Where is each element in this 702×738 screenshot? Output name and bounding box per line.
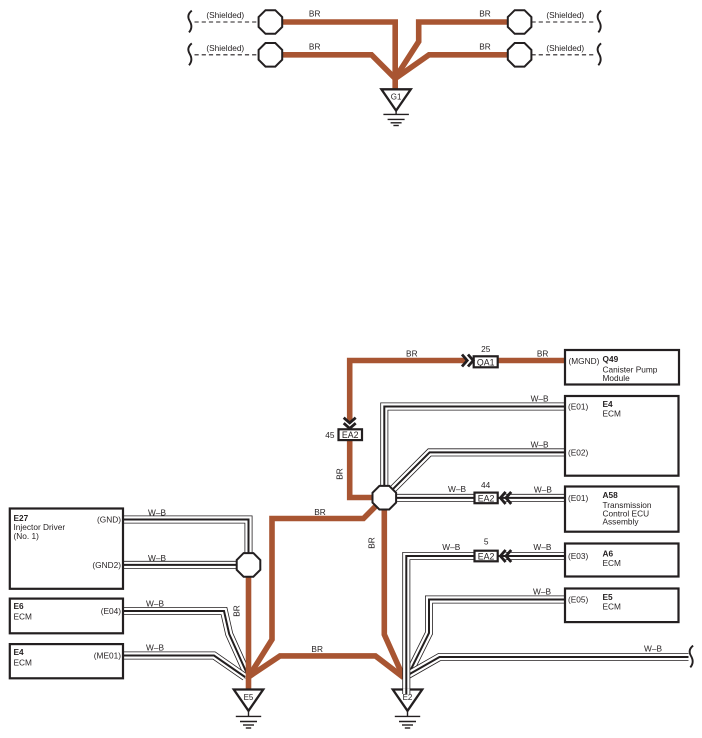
- label 5: [484, 537, 489, 547]
- svg-text:Assembly: Assembly: [603, 517, 640, 527]
- svg-text:ECM: ECM: [603, 409, 622, 419]
- svg-text:(E02): (E02): [568, 447, 589, 457]
- label BR vertical EA2-45: [335, 468, 345, 480]
- label W-B EA2 5 left: [442, 542, 460, 552]
- wire BR E5 to E2 link: [249, 656, 404, 678]
- svg-text:QA1: QA1: [477, 357, 495, 367]
- svg-text:W–B: W–B: [146, 599, 164, 609]
- label BR at Q49 wire right: [537, 349, 549, 359]
- label W-B E27 GND: [148, 507, 166, 517]
- ground E2: [393, 690, 422, 729]
- svg-text:BR: BR: [232, 605, 242, 617]
- chevron into EA2 pin 45: [344, 418, 356, 429]
- label W-B E6 E04: [146, 599, 164, 609]
- shield node row2 right: [508, 43, 532, 67]
- label W-B EA2 5 right: [533, 542, 551, 552]
- svg-text:W–B: W–B: [534, 485, 552, 495]
- shield node row1 right: [508, 10, 532, 34]
- svg-text:W–B: W–B: [531, 439, 549, 449]
- svg-text:BR: BR: [537, 349, 549, 359]
- svg-text:(No. 1): (No. 1): [14, 531, 40, 541]
- connector EA2 pin 44: [475, 493, 498, 504]
- svg-text:G1: G1: [391, 93, 402, 102]
- wire BR shield row2 right to G1: [396, 55, 508, 78]
- wire W-B junction B to EA2 pin 44: [396, 494, 474, 502]
- connector EA2 pin 5: [475, 551, 498, 562]
- connector QA1 pin 25: [474, 356, 498, 367]
- component A6 ECM: [565, 544, 679, 577]
- wire BR Q49 box to Q49 module: [498, 358, 565, 364]
- wire shielded lead row2 right: [532, 54, 597, 56]
- wire W-B junction B to E4 (E01): [384, 407, 565, 488]
- svg-text:BR: BR: [309, 41, 321, 51]
- label (Shielded) row1 right: [546, 10, 584, 20]
- svg-text:EA2: EA2: [342, 430, 359, 440]
- svg-text:EA2: EA2: [478, 552, 495, 562]
- wire W-B EA2 pin 44 to A58 (E01): [498, 494, 566, 502]
- svg-text:ECM: ECM: [603, 601, 622, 611]
- wire W-B E2 to off-page: [407, 657, 688, 676]
- wire W-B EA2 pin 5 to A6 (E03): [498, 552, 566, 560]
- svg-text:(GND): (GND): [97, 515, 121, 525]
- svg-text:(Shielded): (Shielded): [546, 43, 584, 53]
- component E27 Injector Driver (No. 1): [10, 509, 123, 589]
- break mark row1 right: [598, 11, 601, 33]
- wire BR shield row1 right to G1: [397, 22, 508, 76]
- svg-text:E5: E5: [244, 693, 254, 702]
- wire W-B E27 (GND2) to junction A: [123, 561, 238, 569]
- wire shielded lead row2 left: [195, 54, 259, 56]
- svg-text:44: 44: [481, 480, 491, 490]
- component E5 ECM: [565, 589, 679, 623]
- wire W-B E5 ECM (E05) to E2: [409, 600, 565, 675]
- svg-text:Q49: Q49: [603, 354, 619, 364]
- component E4 ECM (right): [565, 396, 679, 476]
- svg-text:25: 25: [481, 344, 491, 354]
- wire BR junction B to E5: [249, 506, 377, 677]
- shield node row2 left: [259, 43, 283, 67]
- label W-B to E5 ECM: [533, 587, 551, 597]
- label BR bottom link: [311, 644, 323, 654]
- wire BR to QA1 chevron: [350, 361, 467, 422]
- wire shielded lead row1 right: [532, 21, 597, 23]
- connector EA2 pin 45: [339, 429, 363, 440]
- label 45: [325, 430, 335, 440]
- component E6 ECM: [10, 599, 123, 634]
- svg-text:BR: BR: [335, 468, 345, 480]
- label W-B to E4 E02: [531, 439, 549, 449]
- break mark row2 right: [598, 43, 601, 65]
- svg-text:ECM: ECM: [14, 612, 33, 622]
- svg-text:BR: BR: [311, 644, 323, 654]
- svg-text:A58: A58: [603, 490, 619, 500]
- label (Shielded) row2 right: [546, 43, 584, 53]
- svg-text:BR: BR: [309, 9, 321, 19]
- svg-text:W–B: W–B: [531, 394, 549, 404]
- wire BR EA2-45 to junction B: [350, 440, 373, 497]
- svg-text:W–B: W–B: [442, 542, 460, 552]
- label BR vertical junction A to E5: [232, 605, 242, 617]
- svg-text:(E04): (E04): [101, 606, 122, 616]
- svg-text:W–B: W–B: [148, 507, 166, 517]
- svg-text:(MGND): (MGND): [569, 356, 600, 366]
- svg-text:(E03): (E03): [568, 551, 589, 561]
- wire W-B E4 (ME01) to E5: [123, 656, 245, 678]
- svg-text:BR: BR: [367, 537, 377, 549]
- wire W-B EA2 pin 5 to E2: [406, 556, 474, 689]
- svg-text:BR: BR: [479, 41, 491, 51]
- svg-text:(Shielded): (Shielded): [206, 43, 244, 53]
- svg-text:(E01): (E01): [568, 402, 589, 412]
- label BR row1 right: [479, 9, 491, 19]
- wire BR junction B to E2: [384, 509, 403, 677]
- svg-text:(Shielded): (Shielded): [206, 10, 244, 20]
- wire W-B E27 (GND) to junction A: [123, 520, 249, 555]
- label (Shielded) row2 left: [206, 43, 244, 53]
- break mark row2 left: [188, 43, 191, 65]
- label W-B EA2 44 to A58: [534, 485, 552, 495]
- wire BR shield row1 left to G1: [282, 22, 395, 90]
- component A58 Transmission Control ECU Assembly: [565, 487, 679, 532]
- chevron into EA2 pin 5: [500, 550, 511, 562]
- label BR row1 left: [309, 9, 321, 19]
- label BR row2 right: [479, 41, 491, 51]
- svg-text:(E01): (E01): [568, 493, 589, 503]
- label BR at Q49 wire left: [406, 349, 418, 359]
- svg-text:BR: BR: [479, 9, 491, 19]
- svg-text:W–B: W–B: [644, 644, 662, 654]
- svg-text:EA2: EA2: [478, 494, 495, 504]
- ground G1: [381, 89, 410, 125]
- svg-text:W–B: W–B: [148, 553, 166, 563]
- svg-text:Module: Module: [603, 373, 631, 383]
- svg-text:45: 45: [325, 430, 335, 440]
- label W-B to E4 E01: [531, 394, 549, 404]
- svg-text:ECM: ECM: [603, 558, 622, 568]
- wire W-B stub into E2: [402, 689, 410, 695]
- chevron into QA1: [462, 355, 473, 367]
- label W-B E27 GND2: [148, 553, 166, 563]
- label BR horizontal junction-E5 path: [314, 507, 326, 517]
- junction node B (shield junction): [373, 486, 397, 510]
- label 44: [481, 480, 491, 490]
- svg-text:(Shielded): (Shielded): [546, 10, 584, 20]
- label (Shielded) row1 left: [206, 10, 244, 20]
- svg-text:5: 5: [484, 537, 489, 547]
- label W-B E4 ME01: [146, 643, 164, 653]
- junction node A (shield junction): [237, 553, 261, 577]
- label BR vertical junction B to E2: [367, 537, 377, 549]
- svg-text:(E05): (E05): [568, 595, 589, 605]
- component E4 ECM (left): [10, 644, 123, 678]
- svg-text:W–B: W–B: [533, 587, 551, 597]
- label W-B junction to EA2 44: [448, 484, 466, 494]
- label 25: [481, 344, 491, 354]
- shield node row1 left: [259, 10, 283, 34]
- svg-text:W–B: W–B: [448, 484, 466, 494]
- svg-text:E4: E4: [14, 647, 25, 657]
- wire W-B junction B to E4 (E02): [393, 452, 565, 489]
- wire shielded lead row1 left: [195, 21, 259, 23]
- svg-text:(GND2): (GND2): [92, 560, 121, 570]
- wire BR junction A to E5: [246, 577, 252, 690]
- chevron into EA2 pin 44: [500, 492, 511, 504]
- label BR row2 left: [309, 41, 321, 51]
- break mark row1 left: [188, 11, 191, 33]
- svg-text:BR: BR: [406, 349, 418, 359]
- label W-B off-page: [644, 644, 662, 654]
- svg-text:BR: BR: [314, 507, 326, 517]
- svg-text:ECM: ECM: [14, 657, 33, 667]
- component Q49 Canister Pump Module: [565, 350, 679, 385]
- svg-text:W–B: W–B: [533, 542, 551, 552]
- wire BR shield row2 left to G1: [282, 55, 395, 79]
- svg-text:E2: E2: [403, 693, 413, 702]
- svg-text:(ME01): (ME01): [94, 651, 121, 661]
- ground E5: [234, 690, 263, 729]
- wire W-B E6 (E04) to E5: [123, 611, 249, 677]
- svg-text:E6: E6: [14, 601, 25, 611]
- svg-text:W–B: W–B: [146, 643, 164, 653]
- break mark off-page W-B: [690, 646, 693, 668]
